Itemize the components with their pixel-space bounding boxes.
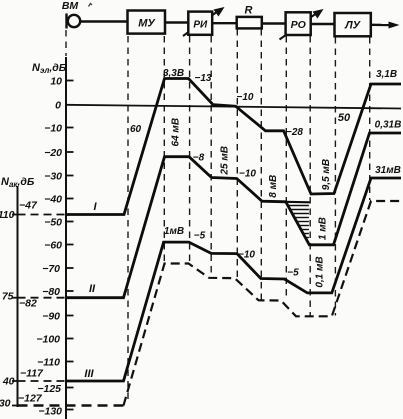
svg-text:10: 10 bbox=[50, 76, 62, 88]
svg-text:ЛУ: ЛУ bbox=[344, 20, 362, 32]
svg-text:−13: −13 bbox=[195, 73, 212, 84]
svg-text:−10: −10 bbox=[44, 123, 62, 135]
svg-text:−117: −117 bbox=[20, 368, 44, 380]
svg-text:−5: −5 bbox=[287, 268, 299, 279]
svg-text:Nак,дБ: Nак,дБ bbox=[1, 176, 35, 189]
svg-text:110: 110 bbox=[0, 209, 15, 221]
svg-text:50: 50 bbox=[338, 112, 351, 124]
svg-text:II: II bbox=[89, 283, 96, 295]
svg-text:0,31В: 0,31В bbox=[375, 120, 402, 131]
svg-text:РО: РО bbox=[291, 19, 306, 31]
svg-text:III: III bbox=[84, 368, 94, 380]
svg-text:60: 60 bbox=[130, 124, 142, 135]
svg-text:75: 75 bbox=[2, 291, 14, 303]
svg-text:−47: −47 bbox=[19, 200, 38, 212]
svg-text:−82: −82 bbox=[19, 298, 37, 310]
svg-text:9,5 мВ: 9,5 мВ bbox=[321, 159, 332, 190]
svg-text:−28: −28 bbox=[286, 127, 303, 138]
svg-text:8 мВ: 8 мВ bbox=[268, 175, 279, 198]
svg-text:R: R bbox=[245, 5, 253, 17]
svg-text:−8: −8 bbox=[193, 153, 205, 164]
svg-text:64 мВ: 64 мВ bbox=[171, 118, 182, 147]
svg-text:40: 40 bbox=[2, 376, 15, 388]
svg-text:МУ: МУ bbox=[138, 18, 156, 30]
svg-text:−10: −10 bbox=[238, 250, 255, 261]
svg-text:−130: −130 bbox=[38, 406, 62, 418]
svg-text:РИ: РИ bbox=[193, 20, 208, 31]
svg-text:3,1В: 3,1В bbox=[376, 69, 397, 80]
svg-text:0,1 мВ: 0,1 мВ bbox=[315, 256, 326, 287]
svg-text:1 мВ: 1 мВ bbox=[317, 217, 328, 240]
svg-text:25 мВ: 25 мВ bbox=[219, 146, 230, 176]
svg-text:−50: −50 bbox=[44, 217, 62, 229]
svg-text:0: 0 bbox=[55, 100, 61, 112]
svg-text:−30: −30 bbox=[44, 171, 62, 183]
svg-text:Nэл,дБ: Nэл,дБ bbox=[32, 62, 67, 75]
svg-text:−60: −60 bbox=[44, 240, 62, 252]
svg-text:31мВ: 31мВ bbox=[375, 165, 401, 176]
svg-text:3,3В: 3,3В bbox=[163, 68, 184, 79]
svg-text:−5: −5 bbox=[194, 231, 206, 242]
svg-text:1мВ: 1мВ bbox=[164, 226, 184, 237]
svg-text:−10: −10 bbox=[239, 169, 256, 180]
svg-text:−100: −100 bbox=[36, 334, 60, 346]
svg-text:−90: −90 bbox=[42, 311, 60, 323]
svg-text:30: 30 bbox=[0, 398, 11, 410]
svg-text:−80: −80 bbox=[42, 286, 60, 298]
svg-text:−40: −40 bbox=[44, 194, 62, 206]
svg-text:ВМ: ВМ bbox=[62, 0, 79, 12]
svg-text:−10: −10 bbox=[237, 92, 254, 103]
svg-text:−70: −70 bbox=[42, 263, 60, 275]
svg-text:−127: −127 bbox=[18, 393, 43, 405]
svg-text:−20: −20 bbox=[44, 147, 62, 159]
